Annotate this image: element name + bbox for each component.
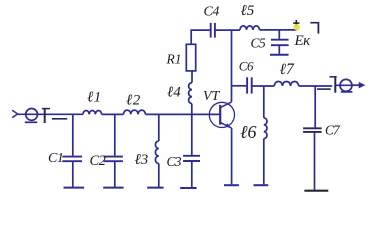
plus sign <box>293 20 299 26</box>
inductor L1 <box>83 111 102 115</box>
svg-text:ℓ5: ℓ5 <box>241 3 255 19</box>
wire L7 to output <box>299 85 333 87</box>
svg-text:R1: R1 <box>166 52 182 67</box>
svg-text:ℓ7: ℓ7 <box>280 61 295 78</box>
ground C3 <box>180 187 196 189</box>
capacitor C6 <box>247 77 252 93</box>
capacitor C2 <box>104 114 123 186</box>
ground C5 <box>270 54 289 56</box>
resistor R1 <box>186 44 195 71</box>
capacitor C5 <box>271 30 289 54</box>
wire R1 to C4 <box>191 30 210 44</box>
svg-text:C3: C3 <box>167 154 182 169</box>
svg-text:ℓ3: ℓ3 <box>135 152 149 168</box>
capacitor C7 <box>303 86 322 190</box>
inductor L6 <box>264 86 267 184</box>
svg-text:ℓ4: ℓ4 <box>167 85 181 101</box>
transistor VT <box>209 102 234 128</box>
ground C7 <box>304 190 328 192</box>
capacitor C4 <box>211 23 215 38</box>
inductor L7 <box>274 82 298 87</box>
svg-text:C1: C1 <box>48 151 63 166</box>
capacitor C1 <box>62 114 82 186</box>
svg-text:C6: C6 <box>239 59 254 74</box>
inductor L3 <box>155 114 158 186</box>
ground C1 <box>64 187 85 189</box>
ground emitter <box>224 184 239 186</box>
ground L3 <box>147 187 163 189</box>
inductor L4 <box>189 71 192 114</box>
svg-text:C4: C4 <box>204 5 220 20</box>
input connector circle <box>26 109 38 121</box>
input pin tick <box>42 108 50 110</box>
svg-text:C5: C5 <box>251 36 267 51</box>
svg-text:VT: VT <box>203 89 221 104</box>
output pin plate <box>334 76 336 93</box>
svg-text:ℓ1: ℓ1 <box>87 90 102 106</box>
svg-text:C7: C7 <box>325 123 341 138</box>
output pin tick <box>329 76 336 78</box>
capacitor C3 <box>183 114 200 187</box>
power terminal Ek <box>310 22 318 34</box>
input lower bar <box>52 118 67 120</box>
svg-text:ℓ6: ℓ6 <box>240 122 257 142</box>
ground L6 <box>254 184 269 186</box>
svg-text:C2: C2 <box>90 153 106 169</box>
wire C6 to L7 <box>252 85 274 87</box>
inductor L5 <box>240 26 260 30</box>
wire C4 to L5 <box>216 29 240 31</box>
input arrow <box>12 110 17 117</box>
output lower bar <box>317 88 331 90</box>
wire plate to circle <box>336 84 352 86</box>
svg-text:Eк: Eк <box>294 33 312 49</box>
connector shield bar out <box>341 91 353 93</box>
output connector circle <box>340 79 352 91</box>
connector shield bar <box>25 121 37 123</box>
inductor L2 <box>124 110 146 114</box>
input pin plate <box>44 108 46 123</box>
svg-text:ℓ2: ℓ2 <box>126 93 141 109</box>
wire input rail (arrow to L1) <box>18 113 83 115</box>
wire collector to C6 <box>232 85 247 87</box>
wire collector vertical <box>231 30 233 102</box>
yellow dot <box>294 24 300 30</box>
wire L5 to Ek <box>260 29 297 31</box>
ground C2 <box>103 187 123 189</box>
output arrow <box>352 84 360 86</box>
wire emitter vertical <box>231 128 233 184</box>
wire L1 to L2 <box>102 113 124 115</box>
wire L2 to base <box>145 113 220 115</box>
